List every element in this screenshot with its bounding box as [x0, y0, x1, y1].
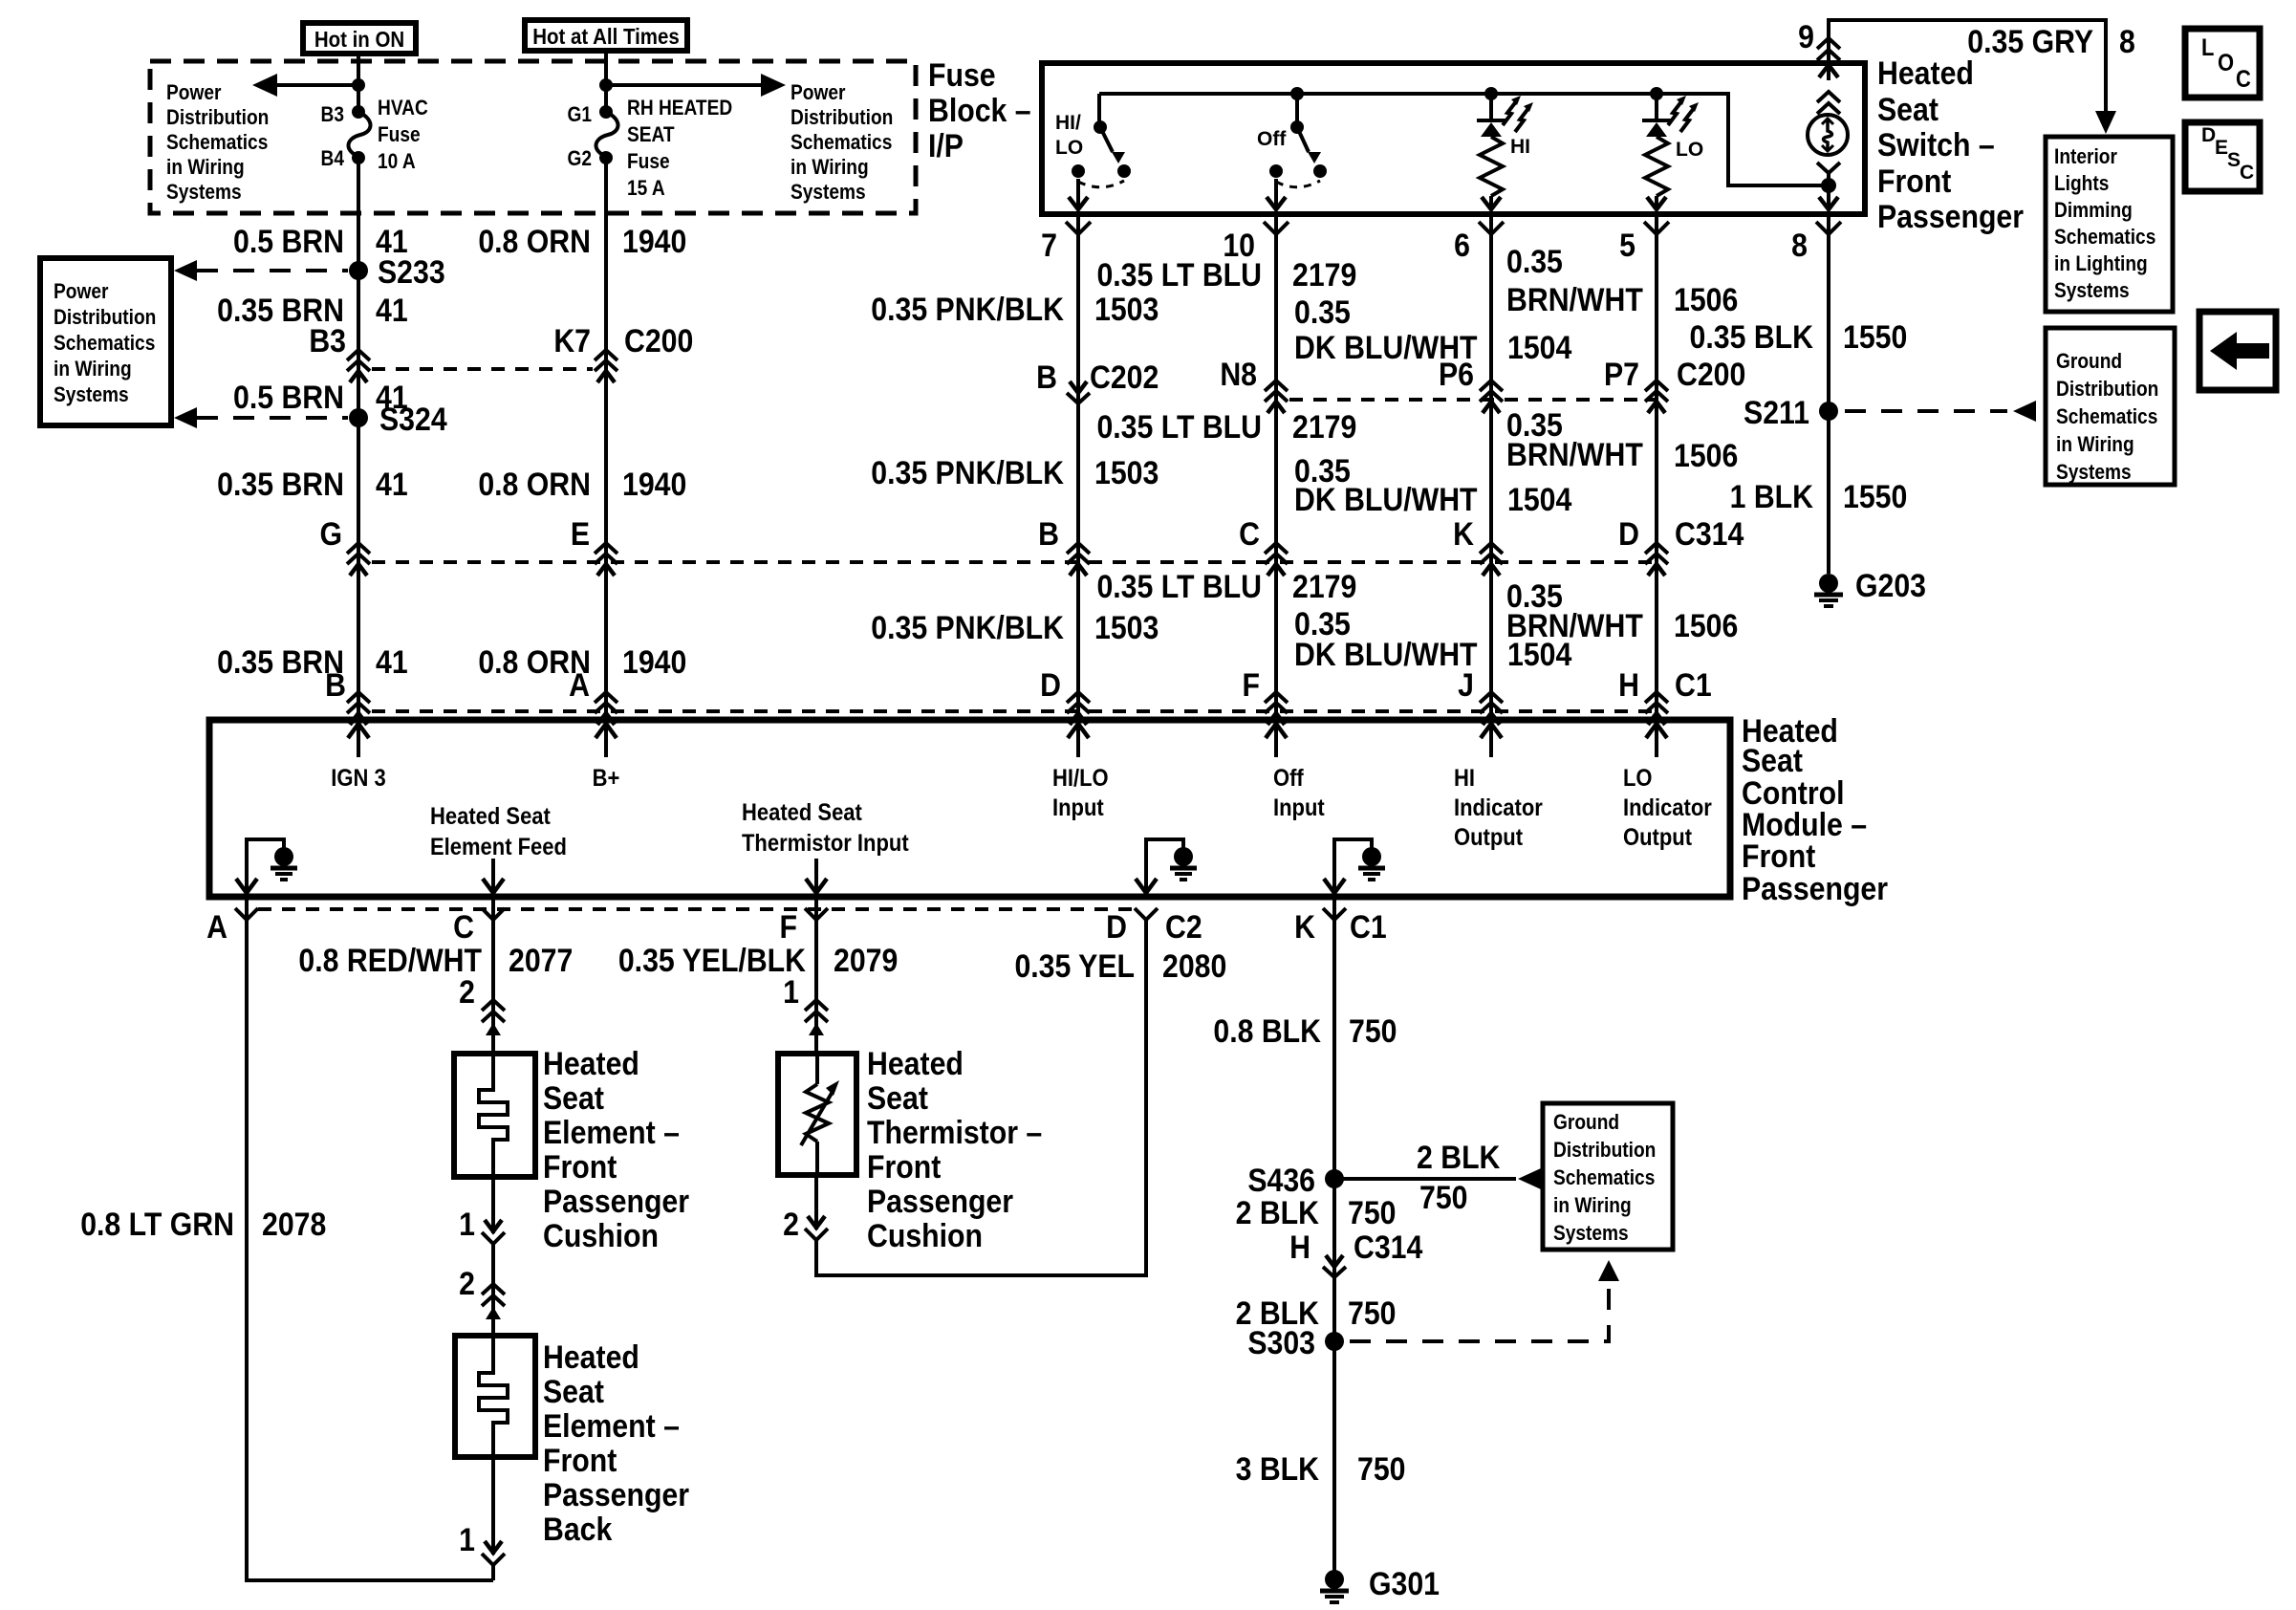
- pin G of C314 label: [319, 515, 342, 552]
- svg-text:B: B: [325, 666, 346, 703]
- svg-text:41: 41: [376, 643, 408, 680]
- wire label "0.35 BRN/WHT 1506" (band 3): [1506, 577, 1738, 643]
- connector chevron below illumination lamp: [1817, 163, 1840, 173]
- heated seat element - front passenger cushion (resistive element): [454, 1054, 535, 1177]
- svg-text:1550: 1550: [1843, 478, 1907, 514]
- note "Power Distribution Schematics in Wiring Systems" (fuse block left): [166, 81, 269, 205]
- wire arrow to Power Distribution Schematics (left): [252, 74, 358, 97]
- svg-text:G203: G203: [1855, 567, 1926, 603]
- svg-text:Indicator: Indicator: [1623, 794, 1712, 821]
- svg-text:G2: G2: [567, 147, 592, 171]
- wire label "0.35 BRN/WHT 1506" (band 2): [1506, 406, 1738, 473]
- wire label "0.8 ORN 1940": [478, 223, 686, 259]
- svg-text:G301: G301: [1369, 1565, 1440, 1601]
- svg-text:I/P: I/P: [928, 127, 964, 163]
- svg-text:2078: 2078: [262, 1206, 326, 1242]
- svg-text:DK BLU/WHT: DK BLU/WHT: [1294, 481, 1478, 517]
- svg-text:Schematics: Schematics: [2054, 226, 2155, 250]
- svg-text:C200: C200: [624, 322, 693, 359]
- wire BLK circuit 1550 (switch pin 8 to G203): [1827, 214, 1830, 574]
- wire label "0.35 DK BLU/WHT 1504" (band 3): [1294, 605, 1571, 672]
- svg-text:in Lighting: in Lighting: [2054, 252, 2148, 276]
- svg-text:Passenger: Passenger: [543, 1476, 689, 1512]
- switch SW1 HI/LO moving contact: [1117, 164, 1131, 178]
- svg-text:Distribution: Distribution: [166, 106, 269, 130]
- module label "HI/LO Input": [1052, 765, 1109, 821]
- connector C1 chevron (pin K): [1323, 908, 1346, 920]
- pin C of C314 label: [1239, 515, 1260, 552]
- svg-text:K: K: [1453, 515, 1474, 552]
- wire element cushion pin 1 to element back pin 2: [482, 1177, 505, 1336]
- component name "Heated Seat Element - Front Passenger Cushion": [543, 1045, 689, 1253]
- pin K of C314 label: [1453, 515, 1474, 552]
- pin B4 label: [321, 147, 345, 171]
- wire RED/WHT circuit 2077 (module pin C to element): [491, 897, 495, 1054]
- svg-text:Seat: Seat: [1742, 742, 1803, 778]
- svg-text:0.35 BRN: 0.35 BRN: [217, 466, 344, 502]
- connector C1 (col7 symbol): [1067, 692, 1090, 725]
- reference wire 2 BLK 750 to Ground Distribution box: [1334, 1139, 1541, 1215]
- pin 10 label: [1223, 227, 1255, 263]
- connector C200 name label (right): [1677, 356, 1745, 392]
- svg-text:1504: 1504: [1507, 481, 1571, 517]
- svg-text:Systems: Systems: [166, 181, 242, 205]
- wire SW1 output to pin 7: [1069, 179, 1088, 209]
- svg-text:S233: S233: [378, 253, 445, 290]
- wire label "0.35 BRN/WHT 1506" (band 1): [1506, 243, 1738, 317]
- connector C200 (col5 symbol): [1645, 381, 1668, 413]
- wire label "2 BLK 750" (C314 to S303): [1236, 1295, 1397, 1331]
- svg-text:Off: Off: [1273, 765, 1304, 792]
- element back pin 1 label: [459, 1521, 475, 1557]
- LO LED emission arrows: [1668, 96, 1699, 132]
- svg-text:0.5 BRN: 0.5 BRN: [233, 223, 344, 259]
- connector C314 (col7 symbol): [1067, 543, 1090, 576]
- svg-text:2179: 2179: [1292, 408, 1356, 445]
- svg-text:LO: LO: [1623, 765, 1653, 792]
- reference box "DESC": [2185, 122, 2260, 191]
- heated seat element - front passenger back (resistive element): [455, 1336, 535, 1457]
- svg-text:C: C: [2236, 66, 2251, 93]
- label "LO": [1676, 139, 1703, 161]
- svg-text:Systems: Systems: [791, 181, 866, 205]
- svg-text:Block –: Block –: [928, 92, 1031, 128]
- wire thermistor pin 2 return to module pin D: [805, 920, 1146, 1275]
- svg-text:Front: Front: [1742, 838, 1816, 874]
- svg-text:C1: C1: [1675, 666, 1712, 703]
- value label "RH HEATED SEAT Fuse 15 A": [627, 97, 732, 201]
- splice S436: [1247, 1162, 1344, 1198]
- switch SW2 Off stationary contact: [1269, 164, 1283, 178]
- wire label "0.35 PNK/BLK 1503" (band 3): [871, 609, 1159, 645]
- svg-text:Schematics: Schematics: [166, 131, 268, 155]
- wire element back pin 1 to return: [482, 1457, 505, 1580]
- connector C314 symbol (col K): [1323, 1255, 1346, 1277]
- switch pin 5 connector chevron: [1644, 222, 1669, 234]
- wire LT GRN circuit 2078 (module pin A, element return): [247, 897, 493, 1580]
- svg-text:Distribution: Distribution: [791, 106, 893, 130]
- pin G2 label: [567, 147, 592, 171]
- connector C314 (col10 symbol): [1265, 543, 1288, 576]
- svg-text:N8: N8: [1220, 356, 1257, 392]
- svg-text:in Wiring: in Wiring: [54, 358, 132, 381]
- svg-text:S303: S303: [1247, 1324, 1315, 1360]
- pin H of C1 label: [1618, 666, 1639, 703]
- pin C of C2 label: [453, 908, 474, 945]
- label "HI/ LO": [1055, 112, 1083, 159]
- svg-text:C314: C314: [1675, 515, 1744, 552]
- svg-text:Heated: Heated: [543, 1338, 639, 1375]
- connector C314 name label: [1675, 515, 1744, 552]
- module internal ground (pin A): [236, 839, 297, 894]
- pin F of C2 label: [780, 908, 797, 945]
- svg-text:41: 41: [376, 292, 408, 328]
- svg-text:750: 750: [1349, 1012, 1397, 1049]
- connector C200 (col10 symbol): [1265, 381, 1288, 413]
- svg-text:B3: B3: [321, 103, 344, 127]
- module label "Heated Seat Element Feed": [430, 803, 567, 860]
- dashed reference wire from S233 to Power Distribution box: [174, 260, 348, 281]
- wire BRN circuit 41 (C200 to C1): [357, 375, 360, 715]
- component name "Fuse Block - I/P": [928, 56, 1031, 163]
- svg-text:Ground: Ground: [2056, 350, 2122, 374]
- svg-text:2079: 2079: [834, 942, 898, 978]
- fuse F2 RH HEATED SEAT 15 A symbol: [596, 105, 617, 164]
- module label "Off Input": [1273, 765, 1325, 821]
- connector C1 (col1 symbol): [347, 692, 370, 725]
- svg-text:BRN/WHT: BRN/WHT: [1506, 607, 1643, 643]
- component name "Heated Seat Element - Front Passenger Back": [543, 1338, 689, 1547]
- junction node on seat fuse feed: [599, 78, 613, 92]
- pin B3 label: [321, 103, 344, 127]
- svg-text:D: D: [2201, 124, 2216, 146]
- svg-text:HI: HI: [1454, 765, 1475, 792]
- svg-text:1550: 1550: [1843, 318, 1907, 355]
- pin 6 label: [1454, 227, 1470, 263]
- svg-text:H: H: [1289, 1229, 1310, 1265]
- connector C202 symbol: [1067, 381, 1090, 403]
- svg-text:2179: 2179: [1292, 256, 1356, 293]
- svg-text:HI/: HI/: [1055, 112, 1081, 134]
- module pin entry arrow (LO indicator output): [1646, 723, 1667, 757]
- svg-text:2: 2: [459, 973, 475, 1010]
- splice S211: [1744, 394, 1838, 430]
- svg-text:0.35 YEL/BLK: 0.35 YEL/BLK: [618, 942, 806, 978]
- svg-text:HVAC: HVAC: [378, 97, 428, 120]
- switch SW2 dashed travel arc: [1276, 181, 1320, 187]
- svg-text:0.35 LT BLU: 0.35 LT BLU: [1096, 408, 1262, 445]
- svg-text:Systems: Systems: [2056, 461, 2132, 485]
- svg-text:1506: 1506: [1674, 437, 1738, 473]
- pin E of C314 label: [571, 515, 590, 552]
- illumination lamp: [1808, 115, 1848, 155]
- svg-text:1: 1: [459, 1521, 475, 1557]
- svg-text:Heated Seat: Heated Seat: [430, 803, 551, 830]
- svg-text:Ground: Ground: [1553, 1111, 1619, 1135]
- svg-text:Front: Front: [867, 1148, 942, 1185]
- connector C314 (col6 symbol): [1480, 543, 1503, 576]
- svg-text:Passenger: Passenger: [1742, 870, 1888, 906]
- svg-text:Fuse: Fuse: [378, 123, 421, 147]
- svg-text:Fuse: Fuse: [928, 56, 996, 93]
- splice S303: [1247, 1324, 1344, 1360]
- svg-text:5: 5: [1619, 227, 1635, 263]
- svg-text:Cushion: Cushion: [543, 1217, 659, 1253]
- HI indicator LED with resistor: [1477, 87, 1505, 209]
- pin 5 label: [1619, 227, 1635, 263]
- label "Off": [1257, 128, 1287, 150]
- svg-text:0.35: 0.35: [1506, 243, 1563, 279]
- lamp to ground-side junction: [1819, 173, 1838, 209]
- svg-text:750: 750: [1357, 1450, 1405, 1487]
- svg-text:SEAT: SEAT: [627, 123, 675, 147]
- element pin 2 label: [459, 973, 475, 1010]
- svg-text:2077: 2077: [509, 942, 573, 978]
- svg-text:in Wiring: in Wiring: [2056, 433, 2134, 457]
- svg-text:10 A: 10 A: [378, 150, 416, 174]
- svg-text:0.5 BRN: 0.5 BRN: [233, 379, 344, 415]
- svg-text:750: 750: [1419, 1179, 1467, 1215]
- svg-text:Front: Front: [1877, 163, 1952, 199]
- connector chevrons (element back pin 2): [482, 1284, 505, 1319]
- lamp entry arrow: [1819, 63, 1838, 80]
- svg-text:A: A: [569, 666, 590, 703]
- svg-text:Schematics: Schematics: [2056, 405, 2157, 429]
- svg-text:Front: Front: [543, 1442, 617, 1478]
- svg-text:C314: C314: [1354, 1229, 1422, 1265]
- svg-text:E: E: [571, 515, 590, 552]
- element back pin 2 label: [459, 1265, 475, 1301]
- svg-text:Heated: Heated: [543, 1045, 639, 1081]
- svg-text:Schematics: Schematics: [1553, 1166, 1655, 1190]
- pin 7 label: [1041, 227, 1057, 263]
- svg-text:B4: B4: [321, 147, 345, 171]
- connector chevrons (element cushion pin 2): [482, 1000, 505, 1035]
- pin K of C1 (module) label: [1294, 908, 1315, 945]
- module pin entry arrow (HI indicator output): [1481, 723, 1502, 757]
- wire label "0.5 BRN 41": [233, 223, 408, 259]
- HI LED emission arrows: [1503, 96, 1533, 132]
- svg-text:C202: C202: [1090, 359, 1159, 395]
- connector C314 (col2 symbol): [595, 543, 617, 576]
- svg-text:0.35 LT BLU: 0.35 LT BLU: [1096, 568, 1262, 604]
- svg-text:Schematics: Schematics: [791, 131, 892, 155]
- svg-text:HI: HI: [1510, 136, 1530, 158]
- svg-text:Input: Input: [1052, 794, 1104, 821]
- svg-text:0.8 LT GRN: 0.8 LT GRN: [80, 1206, 234, 1242]
- pin N8 of C200 label: [1220, 356, 1257, 392]
- svg-text:C: C: [453, 908, 474, 945]
- dashed reference wire from S324 to Power Distribution box: [174, 407, 348, 428]
- heated seat switch enclosure: [1042, 63, 1865, 214]
- connector chevrons at switch pin 9: [1817, 38, 1840, 60]
- module label "LO Indicator Output": [1623, 765, 1712, 851]
- dashed reference wire from S211 to Ground Distribution box: [1845, 401, 2036, 422]
- svg-text:LO: LO: [1676, 139, 1703, 161]
- wire label "3 BLK 750": [1236, 1450, 1406, 1487]
- wire BLK circuit 750 (module pin K to G301): [1332, 897, 1336, 1579]
- svg-text:Seat: Seat: [543, 1079, 604, 1116]
- svg-text:Seat: Seat: [867, 1079, 928, 1116]
- svg-text:D: D: [1106, 908, 1127, 945]
- svg-text:1940: 1940: [622, 466, 686, 502]
- svg-text:Back: Back: [543, 1511, 612, 1547]
- pin 9 label: [1798, 18, 1814, 54]
- svg-text:8: 8: [1791, 227, 1808, 263]
- reference box "Power Distribution Schematics in Wiring Systems": [40, 258, 171, 425]
- wire label "0.8 ORN 1940" (band 3): [478, 643, 686, 680]
- module label "B+": [593, 765, 620, 792]
- svg-text:O: O: [2218, 50, 2234, 76]
- wire ORN circuit 1940 (fuse G2 to module): [604, 158, 608, 715]
- wire label "0.35 PNK/BLK 1503" (band 2): [871, 454, 1159, 490]
- dashed connector line C200 (left): [372, 367, 593, 371]
- svg-text:9: 9: [1798, 18, 1814, 54]
- module label "HI Indicator Output": [1454, 765, 1543, 851]
- svg-text:2 BLK: 2 BLK: [1417, 1139, 1500, 1175]
- connector C200 (col6 symbol): [1480, 381, 1503, 413]
- element cushion pin 1 label: [459, 1206, 475, 1242]
- svg-text:1503: 1503: [1094, 454, 1159, 490]
- connector C2 chevron (pin C): [482, 908, 505, 920]
- reference box "Interior Lights Dimming Schematics in Lighting Systems": [2046, 137, 2173, 312]
- module pin entry arrow (Off input): [1266, 723, 1287, 757]
- svg-text:Hot at All Times: Hot at All Times: [532, 24, 680, 49]
- svg-text:BRN/WHT: BRN/WHT: [1506, 436, 1643, 472]
- wire label "0.35 LT BLU 2179" (band 3): [1096, 568, 1356, 604]
- switch SW1 dashed travel arc: [1078, 181, 1124, 187]
- svg-text:0.35: 0.35: [1294, 294, 1351, 330]
- wire label "0.35 DK BLU/WHT 1504" (band 1): [1294, 294, 1571, 365]
- svg-text:Element Feed: Element Feed: [430, 834, 567, 860]
- wire label "0.8 RED/WHT 2077": [298, 942, 573, 978]
- svg-text:2: 2: [783, 1206, 799, 1242]
- wire label "0.8 BLK 750": [1213, 1012, 1397, 1049]
- svg-text:0.8 ORN: 0.8 ORN: [478, 466, 591, 502]
- connector C1 (module) name label: [1350, 908, 1387, 945]
- wire label "0.8 LT GRN 2078": [80, 1206, 326, 1242]
- svg-text:L: L: [2201, 34, 2214, 61]
- svg-text:Hot in ON: Hot in ON: [314, 27, 404, 52]
- wire label "0.35 DK BLU/WHT 1504" (band 2): [1294, 452, 1571, 517]
- wire label "0.35 GRY 8": [1967, 23, 2135, 59]
- connector C314 (col1 symbol): [347, 543, 370, 576]
- module internal ground (pin D): [1136, 839, 1197, 894]
- module label "Heated Seat Thermistor Input": [742, 799, 909, 857]
- module pin entry arrow (IGN 3): [348, 723, 369, 757]
- dashed connector line C2 (below module): [258, 907, 1135, 911]
- connector C1 (col5 symbol): [1645, 692, 1668, 725]
- svg-text:6: 6: [1454, 227, 1470, 263]
- svg-text:Systems: Systems: [2054, 279, 2130, 303]
- svg-text:2 BLK: 2 BLK: [1236, 1194, 1319, 1230]
- svg-text:0.35 BLK: 0.35 BLK: [1690, 318, 1813, 355]
- wire label "0.35 LT BLU 2179" (band 2): [1096, 408, 1356, 445]
- svg-text:Input: Input: [1273, 794, 1325, 821]
- pin F of C1 label: [1243, 666, 1260, 703]
- svg-text:0.8 RED/WHT: 0.8 RED/WHT: [298, 942, 482, 978]
- connector C2 chevron (pin F): [805, 908, 828, 920]
- connector C2 chevron (pin A): [235, 908, 258, 920]
- switch pin 7 connector chevron: [1066, 222, 1091, 234]
- svg-text:B: B: [1036, 359, 1057, 395]
- svg-text:Switch –: Switch –: [1877, 126, 1995, 163]
- svg-text:Indicator: Indicator: [1454, 794, 1543, 821]
- svg-text:B3: B3: [309, 322, 346, 359]
- wire label "0.35 YEL 2080" (module pin D): [1014, 947, 1226, 984]
- pin D of C2 label: [1106, 908, 1127, 945]
- svg-text:Heated: Heated: [1877, 54, 1974, 91]
- fuse F1 HVAC 10 A symbol: [348, 105, 370, 164]
- svg-text:1: 1: [783, 973, 799, 1010]
- svg-text:41: 41: [376, 466, 408, 502]
- svg-text:RH HEATED: RH HEATED: [627, 97, 732, 120]
- svg-text:0.8 BLK: 0.8 BLK: [1213, 1012, 1321, 1049]
- wire arrow to Power Distribution Schematics (right): [606, 74, 786, 97]
- svg-text:Element –: Element –: [543, 1114, 680, 1150]
- wire label "0.35 BLK 1550": [1690, 318, 1908, 355]
- connector C200 (col1 in-line symbol): [347, 350, 370, 382]
- connector C1 (col2 symbol): [595, 692, 617, 725]
- wire from Hot in ON to HVAC fuse pin B3: [357, 54, 360, 114]
- thermistor pin 1 label: [783, 973, 799, 1010]
- pin B of C1 label: [325, 666, 346, 703]
- svg-text:S211: S211: [1744, 394, 1809, 430]
- pin K7 of C200 label: [553, 322, 591, 359]
- svg-text:Passenger: Passenger: [867, 1183, 1013, 1219]
- svg-text:Distribution: Distribution: [54, 306, 156, 330]
- svg-text:S: S: [2227, 149, 2241, 171]
- wire BRN/WHT circuit 1506 (switch pin 5 to module): [1655, 214, 1658, 715]
- wire label "0.35 LT BLU 2179": [1096, 256, 1356, 293]
- wire LT BLU circuit 2179 (switch pin 10 to module): [1274, 214, 1278, 715]
- svg-text:Dimming: Dimming: [2054, 199, 2133, 223]
- pin P7 of C200 label: [1604, 356, 1639, 392]
- connector chevrons above illumination lamp: [1817, 92, 1840, 114]
- svg-text:3 BLK: 3 BLK: [1236, 1450, 1319, 1487]
- reference box "LOC": [2185, 29, 2260, 98]
- connector C314 name label (col K): [1354, 1229, 1422, 1265]
- component name "Heated Seat Control Module - Front Passenger": [1742, 712, 1888, 906]
- pin H of C314 label: [1289, 1229, 1310, 1265]
- module pin entry arrow (HI/LO input): [1068, 723, 1089, 757]
- LO indicator LED with resistor: [1642, 87, 1671, 209]
- svg-text:Thermistor Input: Thermistor Input: [742, 830, 909, 857]
- wire label "0.5 BRN 41" (below C200): [233, 379, 408, 415]
- switch SW2 Off moving contact: [1313, 164, 1327, 178]
- svg-text:Thermistor –: Thermistor –: [867, 1114, 1042, 1150]
- svg-text:0.35 PNK/BLK: 0.35 PNK/BLK: [871, 609, 1064, 645]
- wire PNK/BLK circuit 1503 (switch pin 7 to module): [1076, 214, 1080, 715]
- heated seat control module enclosure: [209, 720, 1730, 897]
- svg-text:1506: 1506: [1674, 281, 1738, 317]
- svg-text:Passenger: Passenger: [543, 1183, 689, 1219]
- switch SW1 HI/LO stationary contact: [1072, 164, 1085, 178]
- svg-text:D: D: [1618, 515, 1639, 552]
- splice S233: [349, 253, 445, 290]
- connector C2 name label: [1165, 908, 1202, 945]
- connector chevrons (thermistor pin 1): [805, 1000, 828, 1035]
- power label box "Hot in ON": [303, 23, 416, 54]
- module internal ground (pin K): [1324, 839, 1385, 894]
- svg-text:in Wiring: in Wiring: [1553, 1194, 1632, 1218]
- svg-text:7: 7: [1041, 227, 1057, 263]
- svg-text:Power: Power: [791, 81, 845, 105]
- svg-text:15 A: 15 A: [627, 177, 665, 201]
- svg-text:K7: K7: [553, 322, 591, 359]
- value label "HVAC Fuse 10 A": [378, 97, 428, 174]
- svg-text:H: H: [1618, 666, 1639, 703]
